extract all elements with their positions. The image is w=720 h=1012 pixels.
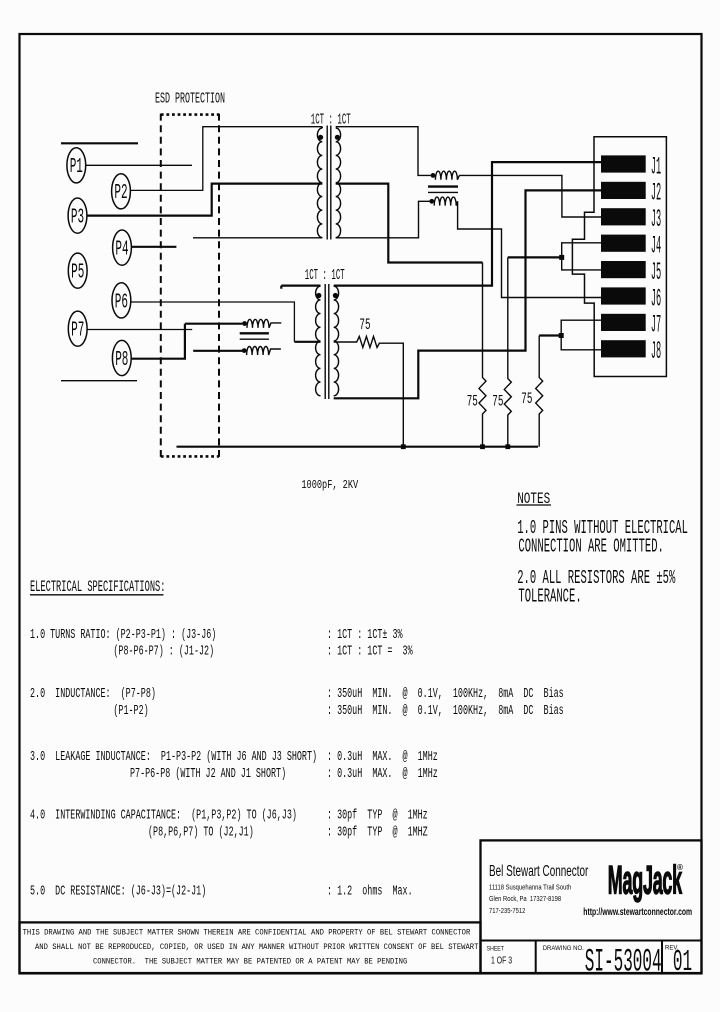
junction dot R2-bus xyxy=(505,444,510,449)
svg-text:3.0 LEAKAGE INDUCTANCE: P1-P: 3.0 LEAKAGE INDUCTANCE: P1-P3-P2 (WITH J… xyxy=(30,748,317,765)
pad J3 xyxy=(601,208,646,225)
wire to choke L2b xyxy=(193,350,242,352)
svg-text:J6: J6 xyxy=(651,284,661,313)
svg-text:: 350uH MIN. @ 0.1V, 100KH: : 350uH MIN. @ 0.1V, 100KHz, 8mA DC Bias xyxy=(327,685,564,702)
pin P7 xyxy=(68,311,87,346)
pad J4 xyxy=(601,235,646,252)
pin P5 xyxy=(68,253,87,288)
svg-text:P3: P3 xyxy=(71,206,84,230)
svg-text:: 30pf TYP @ 1MHZ: : 30pf TYP @ 1MHZ xyxy=(327,824,428,841)
svg-text:CONNECTION ARE OMITTED.: CONNECTION ARE OMITTED. xyxy=(518,535,663,557)
svg-text:(P8-P6-P7) : (J1-J2): (P8-P6-P7) : (J1-J2) xyxy=(113,642,214,659)
ground bus wire (1000pF 2KV) xyxy=(177,446,539,448)
title block divider drawing/rev xyxy=(661,941,663,974)
svg-text:J2: J2 xyxy=(651,178,661,207)
title block divider sheet/drawing xyxy=(535,941,537,974)
svg-text:75: 75 xyxy=(521,390,532,408)
wire T1 primary bottom lead xyxy=(193,237,322,239)
ESD protection dashed box top and bottom xyxy=(161,115,219,457)
svg-text:1.0 TURNS RATIO: (P2-P3-P1) :: 1.0 TURNS RATIO: (P2-P3-P1) : (J3-J6) xyxy=(30,626,216,643)
svg-text:J1: J1 xyxy=(651,152,661,181)
svg-text:1 OF 3: 1 OF 3 xyxy=(491,954,512,966)
svg-text:(P1-P2): (P1-P2) xyxy=(113,702,148,719)
svg-text:1000pF, 2KV: 1000pF, 2KV xyxy=(301,479,358,493)
svg-text:1CT : 1CT: 1CT : 1CT xyxy=(311,111,351,129)
svg-text:P7: P7 xyxy=(71,319,84,343)
pad J5 xyxy=(601,261,646,278)
underline ELECTRICAL SPECIFICATIONS xyxy=(30,594,164,596)
svg-text:: 30pf TYP @ 1MHz: : 30pf TYP @ 1MHz xyxy=(327,807,428,824)
svg-text:(P8,P6,P7) TO (J2,J1): (P8,P6,P7) TO (J2,J1) xyxy=(148,824,254,841)
T2 polarity dot primary xyxy=(316,293,321,298)
wire P6 to T2 primary center tap xyxy=(131,302,294,342)
resistor R1 75 ohm xyxy=(479,263,486,447)
transformer T2 secondary winding xyxy=(334,286,339,396)
choke L1 core xyxy=(428,185,458,187)
svg-text:P4: P4 xyxy=(115,238,128,262)
junction dot R1-bus xyxy=(480,444,485,449)
choke L2 core xyxy=(240,332,269,334)
svg-text:Bel Stewart Connector: Bel Stewart Connector xyxy=(489,862,589,880)
wire junction to J5 xyxy=(562,257,602,270)
wire P7 stub xyxy=(87,329,192,331)
title block outline xyxy=(481,840,702,973)
svg-text:THIS DRAWING AND THE SUBJECT M: THIS DRAWING AND THE SUBJECT MATTER SHOW… xyxy=(23,929,471,937)
svg-text:1CT : 1CT: 1CT : 1CT xyxy=(305,266,345,284)
wire stub to T2 primary top xyxy=(281,286,320,289)
svg-text:Glen Rock, Pa 17327-8198: Glen Rock, Pa 17327-8198 xyxy=(489,896,561,904)
svg-text:P7-P6-P8 (WITH J2 AND J1 SHORT: P7-P6-P8 (WITH J2 AND J1 SHORT) xyxy=(130,765,286,782)
resistor R4 75 ohm (T2 secondary) xyxy=(334,336,404,446)
choke L1b polarity dot xyxy=(429,199,434,204)
pin P2 xyxy=(112,174,131,209)
chip-side bottom bar xyxy=(61,380,137,382)
choke L1b coil xyxy=(434,197,457,206)
svg-text:J5: J5 xyxy=(651,257,661,286)
pin P6 xyxy=(112,283,131,318)
svg-text:75: 75 xyxy=(492,392,503,410)
svg-text:J4: J4 xyxy=(651,231,661,260)
svg-text:: 1CT : 1CT = 3%: : 1CT : 1CT = 3% xyxy=(327,642,413,659)
wire choke L1a to J3 xyxy=(459,175,601,217)
choke L1a polarity dot xyxy=(431,173,436,178)
chip-side top bar xyxy=(61,142,138,144)
svg-text:01: 01 xyxy=(673,946,692,980)
svg-text:P6: P6 xyxy=(115,291,128,315)
svg-text:NOTES: NOTES xyxy=(517,491,550,508)
resistor R3 75 ohm xyxy=(536,336,543,447)
svg-text:P1: P1 xyxy=(70,156,83,180)
wire choke L1b to J6 xyxy=(458,201,602,297)
pad J2 xyxy=(601,182,646,199)
resistor R2 75 ohm xyxy=(504,257,511,446)
svg-text:75: 75 xyxy=(467,392,478,410)
pin P8 xyxy=(112,340,131,375)
svg-text:ESD PROTECTION: ESD PROTECTION xyxy=(155,90,225,107)
junction dot R4-bus xyxy=(401,444,406,449)
wire P2 to T1 primary top xyxy=(131,127,322,191)
svg-text:: 0.3uH MAX. @ 1MHz: : 0.3uH MAX. @ 1MHz xyxy=(327,765,438,782)
svg-text:P2: P2 xyxy=(114,182,127,206)
svg-text:SHEET: SHEET xyxy=(487,946,505,952)
wire T2 secondary bottom to J2 xyxy=(334,190,602,398)
svg-text:5.0 DC RESISTANCE: (J6-J3)=(J: 5.0 DC RESISTANCE: (J6-J3)=(J2-J1) xyxy=(30,882,206,899)
T1 polarity dot primary xyxy=(318,135,323,140)
svg-text:2.0 INDUCTANCE: (P7-P8): 2.0 INDUCTANCE: (P7-P8) xyxy=(30,685,156,702)
wire T1 secondary bottom to choke L1b xyxy=(336,201,430,238)
transformer T2 (bottom 1CT:1CT) primary winding xyxy=(316,286,321,396)
transformer T2 core xyxy=(325,284,329,399)
T1 polarity dot secondary xyxy=(335,135,340,140)
wire T2 secondary top to J1 xyxy=(334,162,602,286)
junction dot J7/J8 xyxy=(559,333,564,338)
svg-text:J7: J7 xyxy=(651,310,661,339)
pin P4 xyxy=(113,230,132,265)
pad J8 xyxy=(601,340,646,357)
svg-text:11118 Susquehanna Trail South: 11118 Susquehanna Trail South xyxy=(489,884,571,892)
svg-text:717-235-7512: 717-235-7512 xyxy=(489,907,526,915)
svg-text:AND SHALL NOT BE REPRODUCED, C: AND SHALL NOT BE REPRODUCED, COPIED, OR … xyxy=(35,944,479,952)
connector block outline xyxy=(572,137,666,377)
choke L2a polarity dot xyxy=(242,321,247,326)
wire P8 to choke L2a xyxy=(131,324,185,359)
disclaimer box xyxy=(20,922,481,973)
wire P4 stub xyxy=(132,246,176,248)
svg-text:75: 75 xyxy=(359,316,370,334)
svg-text:SI-53004: SI-53004 xyxy=(585,944,662,981)
svg-text:: 0.3uH MAX. @ 1MHz: : 0.3uH MAX. @ 1MHz xyxy=(327,748,438,765)
choke L2b polarity dot xyxy=(242,348,247,353)
title block divider horizontal xyxy=(481,940,702,942)
wire R2 to J4/J5 junction xyxy=(508,256,562,258)
svg-text:MagJack: MagJack xyxy=(608,857,683,902)
svg-text:J3: J3 xyxy=(651,205,661,234)
svg-text:http://www.stewartconnector.co: http://www.stewartconnector.com xyxy=(583,906,692,918)
wire P1 stub xyxy=(86,164,192,166)
svg-text:: 1CT : 1CT± 3%: : 1CT : 1CT± 3% xyxy=(327,626,403,643)
svg-text:4.0 INTERWINDING CAPACITANCE:: 4.0 INTERWINDING CAPACITANCE: (P1,P3,P2)… xyxy=(30,807,297,824)
svg-text:J8: J8 xyxy=(651,337,661,366)
ESD protection dashed box sides xyxy=(161,114,219,457)
wire T1 secondary center tap to resistor R1 xyxy=(336,184,483,263)
wire junction to J4 xyxy=(562,243,602,258)
T2 polarity dot secondary xyxy=(333,293,338,298)
wire R3 to J7/J8 junction xyxy=(539,334,561,336)
svg-text:CONNECTOR. THE SUBJECT MATTER: CONNECTOR. THE SUBJECT MATTER MAY BE PAT… xyxy=(93,958,408,966)
pad J1 xyxy=(601,155,646,172)
wire T1 secondary top to choke L1a xyxy=(336,127,431,176)
pin P1 xyxy=(67,148,86,183)
svg-text:: 350uH MIN. @ 0.1V, 100KH: : 350uH MIN. @ 0.1V, 100KHz, 8mA DC Bias xyxy=(327,702,564,719)
svg-text:DRAWING NO.: DRAWING NO. xyxy=(543,946,584,952)
svg-text:ELECTRICAL SPECIFICATIONS:: ELECTRICAL SPECIFICATIONS: xyxy=(30,579,165,596)
wire junction to J7 xyxy=(561,320,601,335)
transformer T1 core xyxy=(327,126,331,240)
wire junction to J8 xyxy=(561,336,602,350)
svg-text:: 1.2 ohms Max.: : 1.2 ohms Max. xyxy=(327,882,413,899)
pad J7 xyxy=(601,314,646,331)
wire P3 to T1 primary center tap xyxy=(87,184,322,216)
svg-text:P5: P5 xyxy=(71,261,84,285)
pin P3 xyxy=(68,198,87,233)
pad J6 xyxy=(601,287,646,304)
svg-text:TOLERANCE.: TOLERANCE. xyxy=(518,585,581,607)
choke L2b coil xyxy=(247,347,281,356)
transformer T1 (top 1CT:1CT) primary winding xyxy=(317,127,322,238)
choke L2a coil (left of T2) xyxy=(247,319,281,328)
junction dot J4/J5 xyxy=(559,255,564,260)
choke L1a coil (top right of T1) xyxy=(435,171,459,180)
svg-text:P8: P8 xyxy=(115,349,128,373)
transformer T1 secondary winding xyxy=(336,128,341,238)
svg-text:®: ® xyxy=(677,863,683,872)
underline NOTES xyxy=(517,504,552,506)
